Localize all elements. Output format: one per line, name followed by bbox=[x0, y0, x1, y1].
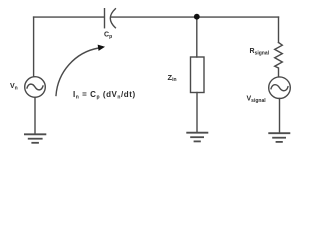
svg-text:Rsignal: Rsignal bbox=[250, 48, 270, 57]
svg-text:Vsignal: Vsignal bbox=[247, 96, 267, 105]
svg-text:Zin: Zin bbox=[168, 73, 177, 83]
svg-text:In = Cp (dVn/dt): In = Cp (dVn/dt) bbox=[73, 90, 136, 101]
svg-text:Cp: Cp bbox=[104, 32, 112, 41]
svg-text:Vn: Vn bbox=[10, 83, 18, 92]
